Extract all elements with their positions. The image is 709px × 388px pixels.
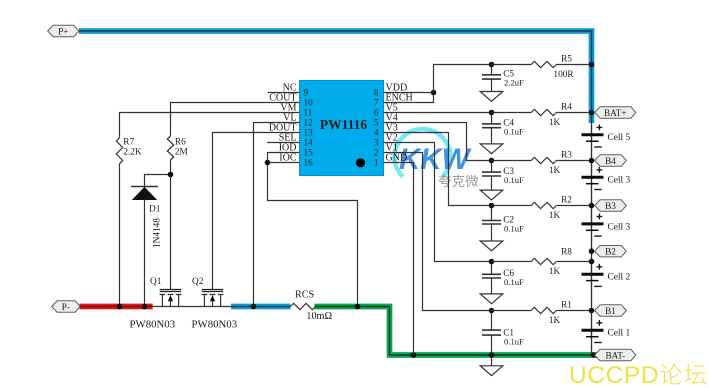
pin 2 name label V1: [386, 143, 398, 154]
wire pin 14 SEL stub: [267, 142, 300, 144]
pin 7 number: [374, 98, 379, 108]
pin 15 number: [304, 148, 314, 158]
junction VDD-ENCH: [431, 90, 437, 96]
svg-text:PW80N03: PW80N03: [192, 319, 238, 331]
svg-text:6: 6: [374, 108, 379, 118]
svg-text:P+: P+: [58, 26, 68, 36]
wire bottom rail P- to RCS (black): [80, 306, 291, 308]
svg-text:1K: 1K: [549, 267, 561, 277]
svg-text:Cell 3: Cell 3: [608, 176, 631, 186]
label RCS: [295, 290, 315, 301]
battery Cell 1: [582, 320, 604, 343]
svg-text:8: 8: [374, 88, 379, 98]
label Cell 1: [608, 329, 631, 339]
label R7 value 2.2K: [123, 147, 142, 157]
label C4 value 0.1uF: [504, 127, 524, 137]
wire VM pin 11 to resistor R7: [120, 113, 300, 138]
pin 8 number: [374, 88, 379, 98]
svg-text:13: 13: [304, 128, 314, 138]
pin 3 number: [374, 138, 379, 148]
pin 7 name label ENCH: [386, 93, 413, 104]
pin 9 name label NC: [283, 83, 297, 94]
label R8 value 1K: [549, 267, 561, 277]
svg-text:Cell 1: Cell 1: [608, 329, 631, 339]
capacitor C3: [482, 161, 501, 191]
label C2 value 0.1uF: [504, 223, 524, 233]
label C5: [503, 70, 514, 80]
svg-text:Cell 3: Cell 3: [608, 222, 631, 232]
svg-text:16: 16: [304, 158, 314, 168]
wire P+ net (thick blue) from P+ tag to BAT+ node: [79, 31, 592, 123]
svg-text:0.1uF: 0.1uF: [504, 175, 524, 185]
wire COUT pin 10 to resistor R6: [171, 103, 300, 137]
svg-text:BAT-: BAT-: [605, 350, 625, 360]
label R5 value 100R: [553, 70, 574, 80]
junction GND line / green rail: [411, 352, 417, 358]
label Cell 5: [608, 133, 631, 143]
svg-text:RCS: RCS: [295, 290, 315, 301]
IC U1 PW1116 body: [300, 81, 384, 176]
label Q2 part PW80N03: [192, 319, 238, 331]
pin 16 number: [304, 158, 314, 168]
label R6 value 2M: [175, 147, 188, 157]
wire IOC pin 16 to RCS-green junction: [268, 163, 358, 307]
pin 10 number: [304, 98, 314, 108]
ground (C1): [480, 366, 503, 376]
svg-text:0.1uF: 0.1uF: [504, 337, 524, 347]
pin 15 name label IOD: [279, 143, 297, 154]
svg-text:1K: 1K: [549, 166, 561, 176]
junction IOD-IOC: [265, 160, 271, 166]
svg-text:PW80N03: PW80N03: [130, 319, 176, 331]
battery Cell 2: [582, 264, 604, 287]
junction C3 node: [489, 158, 495, 164]
svg-text:2.2K: 2.2K: [123, 147, 142, 157]
capacitor C2: [482, 206, 501, 242]
label R8: [561, 248, 572, 258]
pin 12 name label VL: [283, 113, 296, 124]
pin 6 number: [374, 108, 379, 118]
wire battery stack column: [591, 113, 593, 356]
svg-text:R7: R7: [123, 137, 134, 147]
label Q1 part PW80N03: [130, 319, 176, 331]
node P- tag: [52, 301, 81, 312]
pin 11 name label VM: [280, 103, 296, 114]
label R2: [561, 196, 572, 206]
label C5 value 2.2uF: [504, 78, 524, 88]
label C2: [503, 215, 514, 225]
svg-text:Cell 2: Cell 2: [608, 273, 631, 283]
wire GND pin 1 to BAT- rail: [384, 163, 414, 356]
label C4: [503, 119, 514, 129]
junction R6 bottom / D1 cathode / Q1 gate: [168, 172, 174, 178]
svg-text:0.1uF: 0.1uF: [504, 223, 524, 233]
battery Cell 5: [582, 125, 604, 148]
svg-text:1N4148: 1N4148: [153, 218, 163, 248]
svg-text:1K: 1K: [549, 118, 561, 128]
svg-text:11: 11: [304, 108, 313, 118]
junction C5 node: [489, 62, 495, 68]
label R4: [561, 103, 572, 113]
svg-text:5: 5: [374, 118, 379, 128]
svg-text:0.1uF: 0.1uF: [504, 127, 524, 137]
svg-text:R6: R6: [175, 137, 186, 147]
label R2 value 1K: [549, 211, 561, 221]
svg-text:P-: P-: [62, 302, 70, 312]
junction BAT- node: [591, 352, 597, 358]
pin 13 name label DOUT: [269, 123, 297, 134]
svg-text:BAT+: BAT+: [604, 108, 627, 118]
node BAT+ tag: [595, 107, 636, 118]
node BAT- tag: [595, 349, 636, 360]
label C1 value 0.1uF: [504, 337, 524, 347]
junction C6 node: [489, 259, 495, 265]
svg-text:1K: 1K: [549, 316, 561, 326]
junction C1 node: [489, 308, 495, 314]
junction D1 anode / P- rail: [142, 304, 148, 310]
resistor R1: [492, 307, 592, 313]
wire V5 pin 6 to C4-R4 row: [384, 112, 492, 114]
pin 1 name label GND: [386, 153, 408, 164]
pin 11 number: [304, 108, 313, 118]
junction B3 node: [589, 203, 595, 209]
capacitor C4: [482, 113, 501, 144]
ground (C5): [480, 92, 503, 102]
svg-text:12: 12: [304, 118, 314, 128]
wire Q2-RCS net (thick blue): [231, 304, 291, 310]
resistor R6: [167, 136, 173, 175]
pin 1 number: [374, 158, 379, 168]
label Cell 3: [608, 176, 631, 186]
wire V1 pin 2 to C1-R1 row: [384, 153, 492, 311]
svg-text:R8: R8: [561, 248, 572, 258]
svg-text:4: 4: [374, 128, 379, 138]
wire V2 pin 3 to C6-R8 row: [384, 143, 492, 262]
node P+ tag: [48, 25, 79, 36]
junction R7 / P- rail: [117, 304, 123, 310]
pin 4 name label V3: [386, 123, 398, 134]
svg-text:UCCPD: UCCPD: [569, 362, 659, 388]
svg-text:2: 2: [374, 148, 379, 158]
label R1: [561, 301, 572, 311]
label RCS value 10m&#937;: [306, 311, 332, 322]
label D1: [149, 205, 161, 215]
label C3 value 0.1uF: [504, 175, 524, 185]
junction R5 / P+ net: [589, 62, 595, 68]
junction B4 node: [589, 158, 595, 164]
transistor Q1 PW80N03: [160, 290, 182, 307]
node B1 tag: [595, 305, 627, 316]
svg-text:14: 14: [304, 138, 314, 148]
svg-text:R1: R1: [561, 301, 572, 311]
ground (C6): [480, 294, 503, 304]
svg-text:B4: B4: [605, 156, 616, 166]
junction BAT+ node: [589, 110, 595, 116]
resistor R7: [116, 138, 122, 307]
junction VL / blue rail: [251, 304, 257, 310]
svg-text:0.1uF: 0.1uF: [504, 277, 524, 287]
junction IOC line / green rail: [355, 304, 361, 310]
svg-text:R2: R2: [561, 196, 572, 206]
label R3: [561, 151, 572, 161]
svg-text:KKW: KKW: [399, 143, 472, 176]
pin 5 name label V4: [386, 113, 398, 124]
transistor Q2 PW80N03: [202, 290, 224, 307]
label Cell 2: [608, 273, 631, 283]
label R6: [175, 137, 186, 147]
svg-text:PW1116: PW1116: [320, 117, 368, 132]
junction B1 node: [589, 308, 595, 314]
svg-text:10mΩ: 10mΩ: [306, 311, 332, 322]
label C1: [503, 329, 514, 339]
wire ENCH pin 7 joins VDD: [384, 93, 434, 103]
svg-text:1K: 1K: [549, 211, 561, 221]
ground (C3): [480, 190, 503, 200]
junction C4 node: [489, 110, 495, 116]
wire RCS to BAT- net (thick green): [315, 307, 599, 356]
junction C2 node: [489, 203, 495, 209]
svg-text:100R: 100R: [553, 70, 574, 80]
label Q1: [150, 277, 162, 287]
label R3 value 1K: [549, 166, 561, 176]
svg-text:15: 15: [304, 148, 314, 158]
pin 14 number: [304, 138, 314, 148]
wire P- net (thick red): [80, 304, 153, 310]
label C6 value 0.1uF: [504, 277, 524, 287]
svg-text:9: 9: [304, 88, 309, 98]
diode D1: [131, 187, 158, 307]
wire V3 pin 4 to C2-R2 row: [384, 133, 492, 206]
svg-text:D1: D1: [149, 205, 161, 215]
pin 2 number: [374, 148, 379, 158]
svg-text:Q1: Q1: [150, 277, 162, 287]
svg-text:10: 10: [304, 98, 314, 108]
svg-text:Q2: Q2: [192, 277, 204, 287]
wire V4 pin 5 to C3-R3 row: [384, 123, 492, 161]
label R5: [561, 55, 572, 65]
resistor R8: [492, 258, 592, 264]
junction C1 ground / green rail: [489, 352, 495, 358]
label Cell 3: [608, 222, 631, 232]
pin 16 name label IOC: [279, 153, 297, 164]
capacitor C5: [482, 65, 501, 92]
svg-text:R3: R3: [561, 151, 572, 161]
label R7: [123, 137, 134, 147]
label R1 value 1K: [549, 316, 561, 326]
resistor R5: [492, 61, 592, 67]
pin 10 name label COUT: [269, 93, 296, 104]
svg-text:B1: B1: [605, 306, 616, 316]
label C6: [503, 269, 514, 279]
wire R6-D1-Q1 gate node: [145, 175, 171, 290]
svg-text:2.2uF: 2.2uF: [504, 78, 524, 88]
ground (C2): [480, 241, 503, 251]
resistor R4: [492, 109, 592, 115]
svg-text:R5: R5: [561, 55, 572, 65]
pin 9 number: [304, 88, 309, 98]
svg-text:2M: 2M: [175, 147, 188, 157]
wire pin 9 NC stub: [268, 92, 300, 94]
pin 4 number: [374, 128, 379, 138]
svg-text:1: 1: [374, 158, 379, 168]
resistor RCS: [291, 303, 316, 309]
capacitor C1: [482, 311, 501, 366]
node B2 tag: [595, 246, 627, 257]
svg-text:Cell 5: Cell 5: [608, 133, 631, 143]
junction B2 node: [589, 248, 595, 254]
label C3: [503, 167, 514, 177]
resistor R3: [492, 157, 592, 163]
svg-text:3: 3: [374, 138, 379, 148]
junction R8 / battery column: [589, 259, 595, 265]
pin 5 number: [374, 118, 379, 128]
capacitor C6: [482, 262, 501, 294]
pin 6 name label V5: [386, 103, 398, 114]
resistor R2: [492, 202, 592, 208]
wire VDD pin 8: [384, 92, 434, 94]
node B4 tag: [595, 155, 627, 166]
ground (C4): [480, 144, 503, 154]
pin 12 number: [304, 118, 314, 128]
wire VDD node up to C5-R5 row: [434, 65, 492, 93]
pin 13 number: [304, 128, 314, 138]
battery Cell 3: [582, 214, 604, 237]
pin 3 name label V2: [386, 133, 398, 144]
label Q2: [192, 277, 204, 287]
wire DOUT pin 13 to Q2 gate: [213, 133, 300, 290]
pin 8 name label VDD: [386, 83, 408, 94]
pin 1 marker dot inside IC: [356, 158, 365, 167]
svg-text:7: 7: [374, 98, 379, 108]
wire IOD pin 15 joins IOC: [268, 153, 300, 163]
battery Cell 3: [582, 167, 604, 190]
svg-text:B3: B3: [605, 201, 616, 211]
svg-text:B2: B2: [605, 247, 616, 257]
node B3 tag: [595, 200, 627, 211]
svg-text:R4: R4: [561, 103, 572, 113]
label D1 value 1N4148: [153, 218, 163, 248]
pin 14 name label SEL: [279, 133, 297, 144]
wire VL pin 12 to Q2 drain blue junction: [254, 123, 300, 307]
label R4 value 1K: [549, 118, 561, 128]
